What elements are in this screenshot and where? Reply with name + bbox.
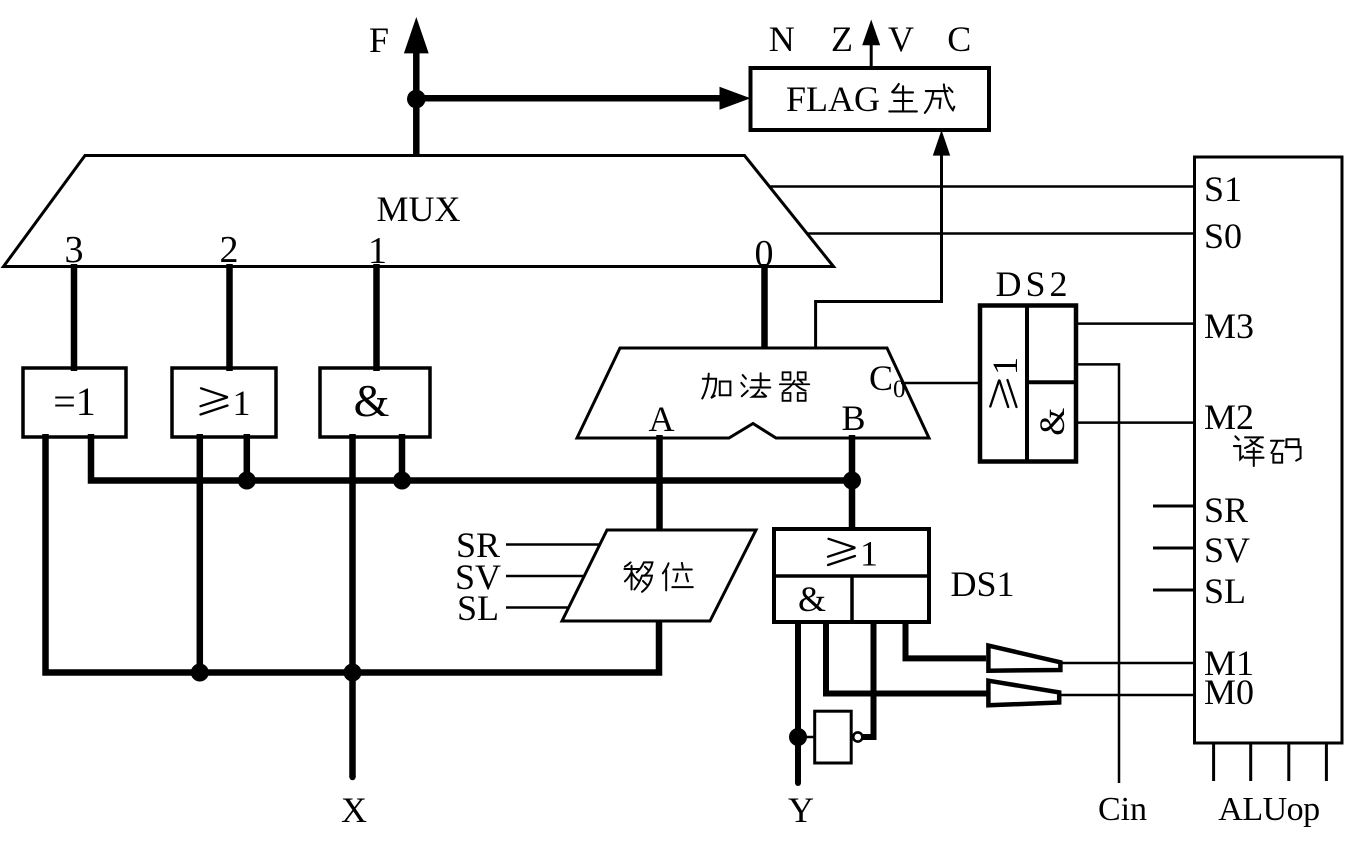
- flag-generator box U-FLAG: [751, 68, 990, 130]
- arrowhead into FLAG bottom: [933, 130, 950, 156]
- wire A input: [656, 435, 663, 531]
- and gate U& box: [320, 368, 430, 437]
- svg-text:DS1: DS1: [950, 564, 1014, 604]
- svg-text:M0: M0: [1204, 672, 1254, 712]
- glyph 加: [702, 374, 730, 399]
- wire SV stub: [1153, 547, 1195, 550]
- glyph 法: [741, 373, 770, 396]
- svg-text:B: B: [841, 398, 865, 438]
- inverter U-NOT box: [815, 711, 852, 763]
- svg-text:MUX: MUX: [376, 189, 460, 229]
- wire FLAG flags output stem: [870, 42, 873, 68]
- glyph 生: [889, 84, 917, 112]
- svg-text:SR: SR: [1204, 490, 1248, 530]
- wire =1 left output to X bus: [46, 434, 660, 673]
- shifter U-SHIFT parallelogram: [562, 530, 756, 621]
- svg-text:ALUop: ALUop: [1218, 791, 1319, 828]
- driver buffer M0 taper: [988, 681, 1059, 706]
- node dot and-gate on X bus: [344, 664, 362, 682]
- svg-text:SL: SL: [1204, 571, 1246, 611]
- svg-text:M3: M3: [1204, 306, 1254, 346]
- selector DS1 box: [774, 529, 929, 622]
- svg-text:Cin: Cin: [1098, 791, 1147, 828]
- wire Y input: [795, 622, 801, 783]
- wire ALUop stub 2: [1249, 743, 1252, 781]
- wire F to FLAG generator: [416, 95, 721, 102]
- svg-text:FLAG: FLAG: [786, 79, 880, 119]
- wire SR stub: [1153, 505, 1195, 508]
- wire SR into shifter: [506, 543, 600, 546]
- svg-text:DS2: DS2: [995, 264, 1071, 304]
- svg-text:M2: M2: [1204, 397, 1254, 437]
- inverter bubble: [853, 732, 862, 741]
- DS1 internal divider vertical: [850, 576, 854, 622]
- wire C0 to DS2: [901, 382, 980, 385]
- glyph 成: [925, 84, 954, 113]
- svg-text:A: A: [649, 399, 675, 439]
- wire SL stub: [1153, 589, 1195, 592]
- svg-text:Z: Z: [831, 19, 853, 59]
- svg-text:&: &: [1032, 408, 1072, 436]
- wire M1 to decoder: [1062, 662, 1196, 665]
- mux U-MUX trapezoid: [4, 156, 834, 267]
- node dot and-gate on B bus: [393, 472, 411, 490]
- wire SL into shifter: [506, 606, 569, 609]
- svg-text:SL: SL: [457, 588, 499, 628]
- svg-text:V: V: [888, 19, 914, 59]
- DS2 internal divider horizontal: [1027, 380, 1076, 384]
- svg-text:=1: =1: [53, 379, 96, 424]
- node dot or-gate on X bus: [191, 664, 209, 682]
- wire mux input 2: [226, 264, 233, 371]
- svg-text:Y: Y: [788, 790, 814, 830]
- svg-text:S1: S1: [1204, 169, 1242, 209]
- wire or-gate left output: [197, 434, 204, 673]
- svg-text:SV: SV: [1204, 530, 1250, 570]
- svg-text:0: 0: [893, 376, 906, 403]
- wire DS1 to M1 driver: [906, 620, 987, 658]
- svg-text:C: C: [947, 19, 971, 59]
- wire ALUop stub 1: [1212, 743, 1215, 781]
- wire M0 to decoder: [1061, 694, 1196, 697]
- wire S1 select: [769, 185, 1197, 188]
- glyph 位: [663, 563, 693, 591]
- decoder U-DEC box: [1195, 157, 1343, 743]
- arrowhead flags up: [862, 20, 880, 46]
- node F junction dot: [407, 90, 426, 109]
- glyph 移: [624, 562, 652, 591]
- wire and-gate left output / X input: [349, 434, 356, 777]
- wire adder carry to FLAG: [816, 154, 942, 349]
- svg-text:N: N: [769, 19, 795, 59]
- DS1 internal divider horizontal: [774, 574, 929, 578]
- wire DS2 to M2: [1076, 421, 1196, 424]
- svg-text:&: &: [798, 579, 826, 619]
- wire DS2 to M3: [1076, 322, 1196, 325]
- svg-text:C: C: [869, 358, 893, 398]
- wire =1 right output to B bus: [91, 434, 852, 481]
- driver buffer M1 taper: [988, 646, 1060, 671]
- or gate U&#8805;1 box: [172, 368, 276, 437]
- wire and-gate right output: [399, 434, 406, 481]
- wire mux input 1: [373, 264, 380, 371]
- label &#8805;1: [201, 383, 251, 423]
- wire Y to inverter input: [801, 736, 814, 739]
- wire mux input 0 from adder: [761, 264, 768, 349]
- selector DS2 box: [980, 306, 1076, 462]
- wire or-gate right output: [244, 434, 251, 481]
- adder U-ADD trapezoid with carry notch: [577, 348, 929, 438]
- svg-text:S0: S0: [1204, 216, 1242, 256]
- label ds1 &#8805;1: [828, 534, 878, 574]
- wire S0 select: [807, 232, 1197, 235]
- DS2 internal divider vertical: [1025, 306, 1029, 462]
- wire SV into shifter: [506, 575, 585, 578]
- glyph 译: [1234, 436, 1264, 466]
- node dot or-gate on B bus: [238, 472, 256, 490]
- wire Cin up to DS2: [1076, 364, 1119, 783]
- arrowhead F up: [404, 17, 429, 53]
- label ds2 &#8805;1 rotated: [985, 357, 1025, 407]
- wire mux input 3: [71, 264, 78, 371]
- xor gate U=1 box: [23, 368, 126, 437]
- node dot B input on B bus: [843, 472, 861, 490]
- wire ALUop stub 4: [1325, 743, 1328, 781]
- wire DS1 to M0 driver: [826, 620, 988, 694]
- wire inverter output up to DS1: [863, 620, 874, 737]
- glyph 码: [1271, 439, 1301, 462]
- glyph 器: [780, 372, 809, 401]
- wire ALUop stub 3: [1287, 743, 1290, 781]
- wire B input: [849, 435, 856, 530]
- node dot Y to inverter: [789, 728, 807, 746]
- svg-text:F: F: [369, 20, 389, 60]
- wire F output stem: [413, 53, 420, 157]
- svg-text:X: X: [341, 790, 367, 830]
- arrowhead into FLAG left: [720, 87, 751, 110]
- svg-text:&: &: [354, 375, 390, 426]
